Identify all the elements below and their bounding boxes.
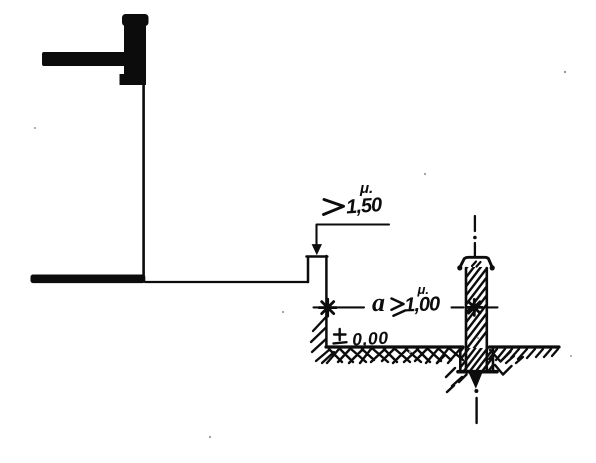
- svg-text:1,50: 1,50: [345, 194, 383, 218]
- svg-text:0,00: 0,00: [352, 328, 389, 350]
- svg-text:μ.: μ.: [417, 282, 429, 297]
- svg-text:a: a: [372, 288, 385, 317]
